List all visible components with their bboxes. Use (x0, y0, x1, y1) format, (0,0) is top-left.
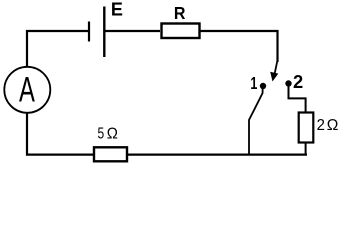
switch blade from bottom wire up to contact 1 (249, 89, 263, 156)
label 5ohm (98, 124, 118, 143)
switch contact 2 (285, 80, 291, 86)
ammeter A (4, 67, 50, 113)
svg-text:2: 2 (317, 117, 325, 135)
bottom wire from 5ohm resistor to 2ohm branch (128, 154, 308, 156)
resistor 5ohm (94, 147, 127, 161)
svg-text:A: A (19, 71, 35, 110)
wire contact 2 down to 2ohm resistor (289, 86, 306, 112)
resistor R (162, 24, 200, 39)
svg-text:E: E (111, 0, 123, 20)
switch contact 1 (260, 83, 266, 89)
battery E (89, 7, 104, 58)
svg-text:2: 2 (293, 72, 303, 92)
label 2ohm (317, 117, 339, 135)
resistor 2ohm (299, 113, 314, 143)
wire battery to resistor R (106, 30, 161, 32)
svg-text:R: R (174, 3, 186, 23)
svg-text:1: 1 (250, 74, 257, 94)
svg-text:Ω: Ω (327, 117, 339, 134)
wire 2ohm resistor down to bottom wire (305, 143, 307, 155)
svg-text:Ω: Ω (107, 125, 118, 143)
wire top-left from battery to corner and down to ammeter (27, 31, 88, 67)
wire ammeter down to bottom-left corner and right to 5ohm resistor (27, 113, 93, 155)
arrow toward switch (270, 61, 278, 82)
svg-text:5: 5 (98, 124, 105, 142)
wire resistor R to top-right corner, down to arrow (201, 31, 278, 62)
